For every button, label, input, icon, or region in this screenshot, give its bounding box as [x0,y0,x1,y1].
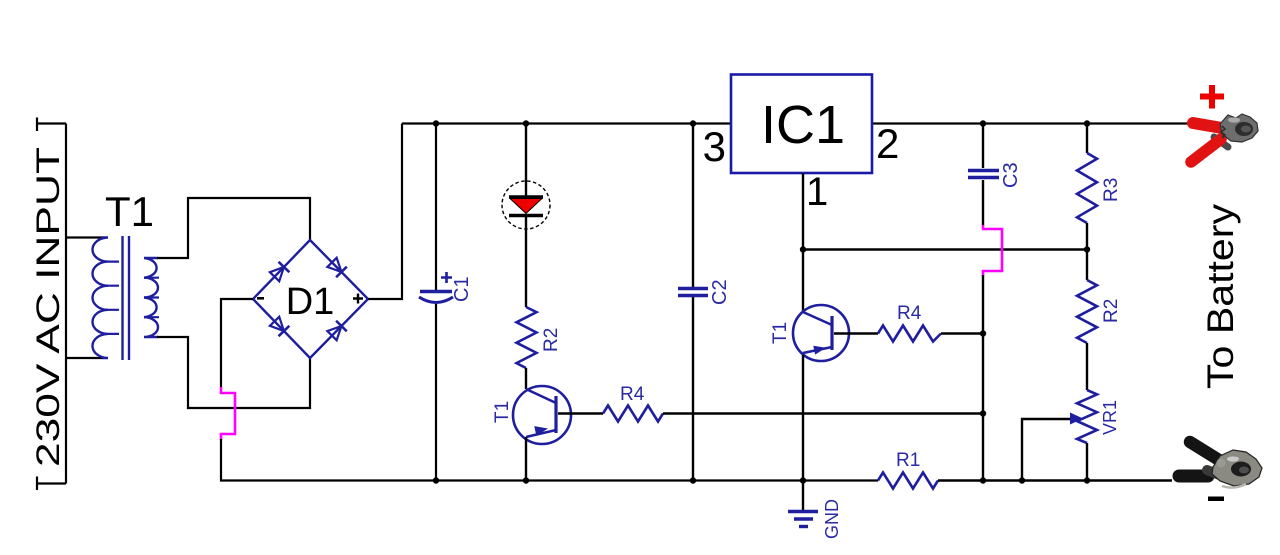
potentiometer VR1 [1077,390,1097,443]
wire bridge plus up to top rail [368,124,402,300]
wiper wire VR1 [1022,419,1074,481]
svg-text:230V AC INPUT: 230V AC INPUT [30,147,66,467]
LED D2 [502,181,550,229]
wire R4 right to node [941,332,984,334]
transformer T1 core [123,236,130,360]
AC input terminal bracket [36,118,66,491]
capacitor C1 branch wires [435,124,437,481]
wire top rail left [402,122,731,124]
wire VR1 to bottom rail [1086,443,1088,481]
svg-text:1: 1 [806,170,828,214]
wire top rail right [872,122,1194,124]
diode D1c bottom-left [269,316,289,336]
junction dots top rail [433,120,439,126]
svg-text:R2: R2 [541,328,562,352]
svg-text:C1: C1 [451,276,473,302]
svg-text:R1: R1 [896,450,920,471]
transformer T1 secondary winding [144,258,158,337]
ground symbol [788,510,818,514]
svg-text:VR1: VR1 [1100,400,1120,435]
svg-text:R4: R4 [897,303,922,324]
wire emitter down to ground rail [802,355,804,511]
op-amp IC1 box [731,75,872,174]
LED branch wire lower [525,217,527,307]
svg-text:2: 2 [876,120,899,167]
wire node down to bottom rail [982,275,984,481]
battery clip negative [1179,442,1262,488]
wire base to R4 [558,412,603,414]
minus mark bridge [257,297,264,300]
junction dots bottom rail [433,477,439,483]
wire R2 to transistor [525,368,527,389]
LED branch wire upper [525,124,527,197]
svg-text:C3: C3 [1000,162,1022,188]
resistor R3 branch [1086,124,1088,154]
wire left down to bottom rail [221,439,878,481]
wire AC to transformer primary [66,238,102,359]
transistor T1 right [793,305,849,361]
wire secondary bottom to bridge bottom [157,337,310,408]
svg-text:T1: T1 [770,322,791,344]
jumper magenta right [983,225,1002,276]
svg-text:D1: D1 [286,281,335,323]
wire R3 to R2 [1086,223,1088,280]
diode D1a top-left [269,262,289,282]
plus terminal mark [1200,85,1224,109]
transformer T1 primary winding [92,238,108,359]
resistor R2 right [1077,280,1097,343]
wire base to R4 right [834,332,878,334]
wire R2 to VR1 [1086,343,1088,390]
resistor R2 left [517,307,537,368]
wire pin1 node to R3 node [803,248,1087,250]
bridge rectifier D1 diamond [253,240,368,358]
plus mark bridge [353,294,363,304]
minus terminal mark [1208,497,1224,502]
svg-text:T1: T1 [492,401,513,423]
svg-text:To Battery: To Battery [1200,203,1241,389]
capacitor C3 branch wires [982,124,984,226]
svg-text:3: 3 [703,123,726,170]
svg-text:C2: C2 [709,279,731,305]
svg-text:GND: GND [822,499,842,539]
capacitor C2 [678,289,708,296]
resistor R1 in bottom rail [878,473,938,489]
wire IC1 pin1 down [802,173,804,311]
junction dots middle [800,246,806,252]
diode D1d bottom-right [327,321,347,341]
wire bridge minus to bottom rail [221,299,253,387]
wiper arrow VR1 [1070,413,1083,425]
capacitor C1 [420,290,452,294]
jumper magenta left [221,387,235,440]
resistor R4 left [603,406,663,422]
svg-text:R4: R4 [620,384,645,405]
capacitor C2 branch wires [692,124,694,481]
wire R4 to node [663,412,984,414]
plus mark C1 [441,272,452,283]
resistor R3 [1077,153,1097,223]
battery clip positive [1191,114,1258,162]
wire emitter down [525,437,527,481]
svg-text:T1: T1 [105,188,154,235]
wire secondary top to bridge top [157,198,310,258]
diode D1b top-right [327,257,347,277]
capacitor C3 [968,171,999,178]
resistor R4 right [878,326,941,342]
svg-text:R2: R2 [1101,299,1122,323]
transistor T1 left [513,386,571,444]
svg-text:IC1: IC1 [761,95,845,155]
svg-text:R3: R3 [1101,178,1122,202]
wire bottom rail right [938,479,1172,481]
